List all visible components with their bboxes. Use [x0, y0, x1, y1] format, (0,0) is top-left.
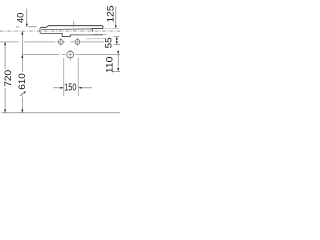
drain crosshair vertical	[69, 50, 71, 61]
adjustability arrowhead	[23, 91, 26, 94]
svg-text:720: 720	[3, 70, 13, 87]
svg-text:150: 150	[64, 83, 77, 94]
fixing hole right	[75, 40, 80, 45]
centerline axis (dash-dot through rim)	[0, 30, 120, 32]
arrow 610 down floor	[21, 110, 23, 113]
drain extension line y=53.8	[22, 50, 120, 61]
dim 125 line	[115, 7, 117, 29]
arrow 150 pointing left	[78, 87, 81, 89]
arrow 110 down	[117, 68, 119, 71]
arrow 40 down	[26, 24, 28, 27]
dim 55 line	[116, 37, 118, 45]
dim 150 arrow lines	[53, 87, 63, 89]
crosshair ticks right hole	[73, 38, 82, 46]
inner rim line	[41, 28, 92, 31]
stub 55 top	[114, 36, 119, 38]
dim 40 line	[26, 9, 28, 27]
rim top and deck	[41, 26, 103, 29]
front edge	[39, 27, 42, 33]
arrow 610 up at drain line	[21, 55, 23, 58]
back ledge	[92, 29, 103, 32]
adjustability arrow shaft	[20, 93, 23, 96]
back auxiliary line	[86, 38, 105, 40]
ledge hidden extension dashes	[104, 28, 120, 30]
basin profile	[40, 21, 120, 39]
svg-text:55: 55	[104, 37, 114, 48]
arrow 110 up	[117, 51, 119, 54]
arrow 55 down	[116, 41, 118, 44]
floor line (faint)	[2, 112, 121, 114]
tap hole tick	[73, 21, 75, 28]
svg-text:110: 110	[104, 57, 114, 74]
arrow 150 pointing right	[60, 87, 63, 89]
underside with notch	[41, 33, 103, 36]
arrow 720 up	[4, 42, 6, 45]
svg-text:40: 40	[16, 13, 26, 23]
stub 55 bottom	[114, 43, 120, 45]
dim 40 stub	[16, 26, 37, 28]
labels	[3, 6, 115, 94]
stub 110 bottom	[113, 70, 121, 72]
arrow 610 up at axis	[21, 31, 23, 34]
dim 110 line	[117, 51, 119, 72]
fixing hole centerline y=41.9	[0, 38, 104, 46]
crosshair ticks left hole	[56, 38, 65, 46]
dim 610 line (broken behind text)	[21, 31, 23, 112]
fixing hole left	[58, 40, 63, 45]
dim 150 extension lines	[64, 58, 78, 96]
arrow 720 down floor	[4, 110, 6, 113]
arrow 125 down	[115, 25, 117, 28]
dim 720 line (broken behind text)	[4, 42, 6, 113]
arrowheads	[4, 24, 119, 113]
arrow 55 up	[116, 37, 118, 40]
svg-text:610: 610	[17, 73, 27, 90]
drain hole	[67, 51, 74, 58]
hidden underside dashes	[82, 33, 106, 35]
svg-text:125: 125	[105, 6, 115, 23]
